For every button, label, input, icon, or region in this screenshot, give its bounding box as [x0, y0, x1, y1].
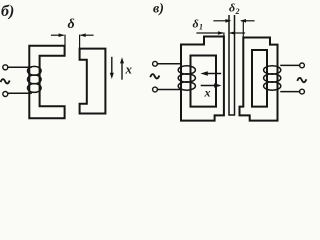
- svg-text:в): в): [153, 2, 164, 17]
- terminal (left bottom fig v): [153, 87, 158, 92]
- wire (left top lead fig v): [157, 63, 180, 65]
- winding W2 (coil of right core): [264, 66, 281, 90]
- wire (bottom lead): [8, 92, 31, 94]
- svg-text:2: 2: [235, 7, 240, 16]
- dimension delta2 (right air gap): [214, 19, 254, 38]
- dimension delta (air gap of fig b): [52, 33, 94, 48]
- wire (top lead): [8, 66, 31, 68]
- svg-text:δ: δ: [68, 17, 75, 32]
- wire (right top lead fig v): [281, 64, 300, 66]
- armature (movable core of fig b): [80, 49, 106, 114]
- AC source symbol ~: [1, 79, 9, 83]
- terminal (top): [3, 65, 8, 70]
- svg-text:1: 1: [199, 23, 203, 32]
- svg-text:δ: δ: [193, 17, 199, 31]
- winding W (coil on left limb): [28, 66, 42, 92]
- arrow x down (armature travel): [111, 58, 113, 75]
- svg-text:б): б): [1, 3, 14, 20]
- wire (right bottom lead fig v): [281, 91, 300, 93]
- terminal (left top fig v): [153, 61, 158, 66]
- dimension delta1 (left air gap): [197, 31, 245, 36]
- arrow x left (plate travel): [206, 73, 220, 75]
- AC source symbol ~ (right fig v): [298, 78, 306, 82]
- armature plate (movable plate between cores): [229, 16, 235, 115]
- winding W1 (coil of left core): [178, 66, 195, 90]
- svg-text:x: x: [204, 86, 211, 100]
- svg-text:δ: δ: [229, 1, 235, 15]
- core 2 (right core of differential transducer fig v): [240, 38, 278, 121]
- terminal (right top fig v): [300, 63, 305, 68]
- core 1 (left core of differential transducer fig v): [181, 37, 224, 121]
- wire (left bottom lead fig v): [157, 89, 180, 91]
- terminal (bottom): [3, 92, 8, 97]
- core (left C-shaped magnetic core of fig b): [29, 46, 64, 118]
- AC source symbol ~ (left fig v): [151, 74, 159, 78]
- arrow x right (plate travel): [202, 85, 217, 87]
- terminal (right bottom fig v): [300, 89, 305, 94]
- arrow x up (armature travel): [121, 62, 123, 80]
- svg-text:x: x: [125, 62, 133, 77]
